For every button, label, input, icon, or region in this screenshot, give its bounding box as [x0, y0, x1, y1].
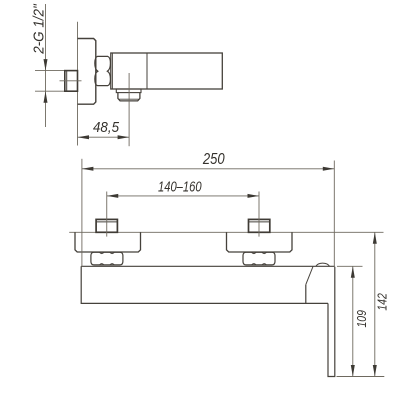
spout nut (side) — [118, 93, 140, 101]
arrow 109 bottom — [351, 365, 355, 377]
wire dimension line 109 — [352, 266, 354, 376]
node inlet head extension line bottom — [35, 90, 65, 92]
svg-text:142: 142 — [375, 293, 390, 311]
wire dimension line 2-G1/2 — [45, 4, 47, 127]
arrow 142 bottom — [373, 365, 377, 377]
svg-text:2-G 1/2": 2-G 1/2" — [30, 4, 47, 55]
right head cap line — [249, 221, 270, 223]
arrow 109 top — [351, 266, 355, 278]
wire wall horizontal line — [69, 231, 383, 233]
arrow right tip at centerline — [118, 135, 130, 139]
arrow 142 top — [373, 232, 377, 244]
wire wall vertical line — [77, 22, 79, 146]
left nut facet notches — [100, 252, 115, 265]
body separator line — [146, 53, 148, 89]
arrow down to 71 — [44, 59, 48, 71]
right eccentric head (front) — [249, 219, 270, 232]
connector nut (side) — [95, 56, 111, 85]
wire dimension line 250 — [82, 168, 334, 170]
svg-text:48,5: 48,5 — [93, 119, 120, 136]
left eccentric head (front) — [96, 219, 117, 232]
wire dimension line 142 — [374, 232, 376, 376]
spout nut inner bottom line — [119, 98, 138, 100]
arrow up to 90.4 — [44, 91, 48, 103]
wire ext line bottom shared — [337, 376, 385, 378]
handle dome — [316, 263, 330, 266]
wire ext line 140-160 right — [258, 192, 260, 237]
wire ext line 109 top — [337, 265, 363, 267]
svg-text:109: 109 — [354, 310, 369, 328]
svg-text:250: 250 — [202, 151, 225, 168]
arrow 250 right — [323, 167, 335, 171]
arrow 140-160 right — [248, 194, 260, 198]
spout neck (side) — [116, 89, 141, 93]
bar bottom edge extension to leg — [306, 302, 329, 304]
wire ext line 250 right — [333, 161, 335, 267]
left nut (front) — [91, 252, 123, 265]
inlet head (side) — [65, 71, 78, 92]
left head cap line — [96, 221, 117, 223]
inlet head cap line — [66, 71, 68, 92]
wire spout centerline — [128, 73, 130, 146]
flange (side) — [78, 39, 96, 105]
valve body (side) — [111, 53, 223, 89]
wire inlet centerline — [60, 80, 82, 82]
right flange (front) — [227, 232, 293, 252]
arrow 250 left — [82, 167, 94, 171]
wire ext line 140-160 left — [106, 192, 108, 237]
right nut facet notches — [252, 252, 267, 265]
wire ext line 250 left — [81, 159, 83, 266]
wire dimension line 140-160 — [107, 195, 259, 197]
valve body inner left line — [111, 53, 113, 89]
arrow left tip at wall — [78, 135, 90, 139]
body bar (front) — [81, 266, 335, 303]
svg-text:140–160: 140–160 — [158, 179, 202, 195]
left flange (front) — [75, 232, 141, 252]
handle left diagonal — [306, 267, 313, 285]
handle leg (paddle) — [328, 267, 335, 377]
right nut (front) — [243, 252, 275, 265]
arrow 140-160 left — [107, 194, 119, 198]
wire dimension line 48,5 — [78, 136, 130, 138]
node inlet head extension line top — [35, 70, 65, 72]
